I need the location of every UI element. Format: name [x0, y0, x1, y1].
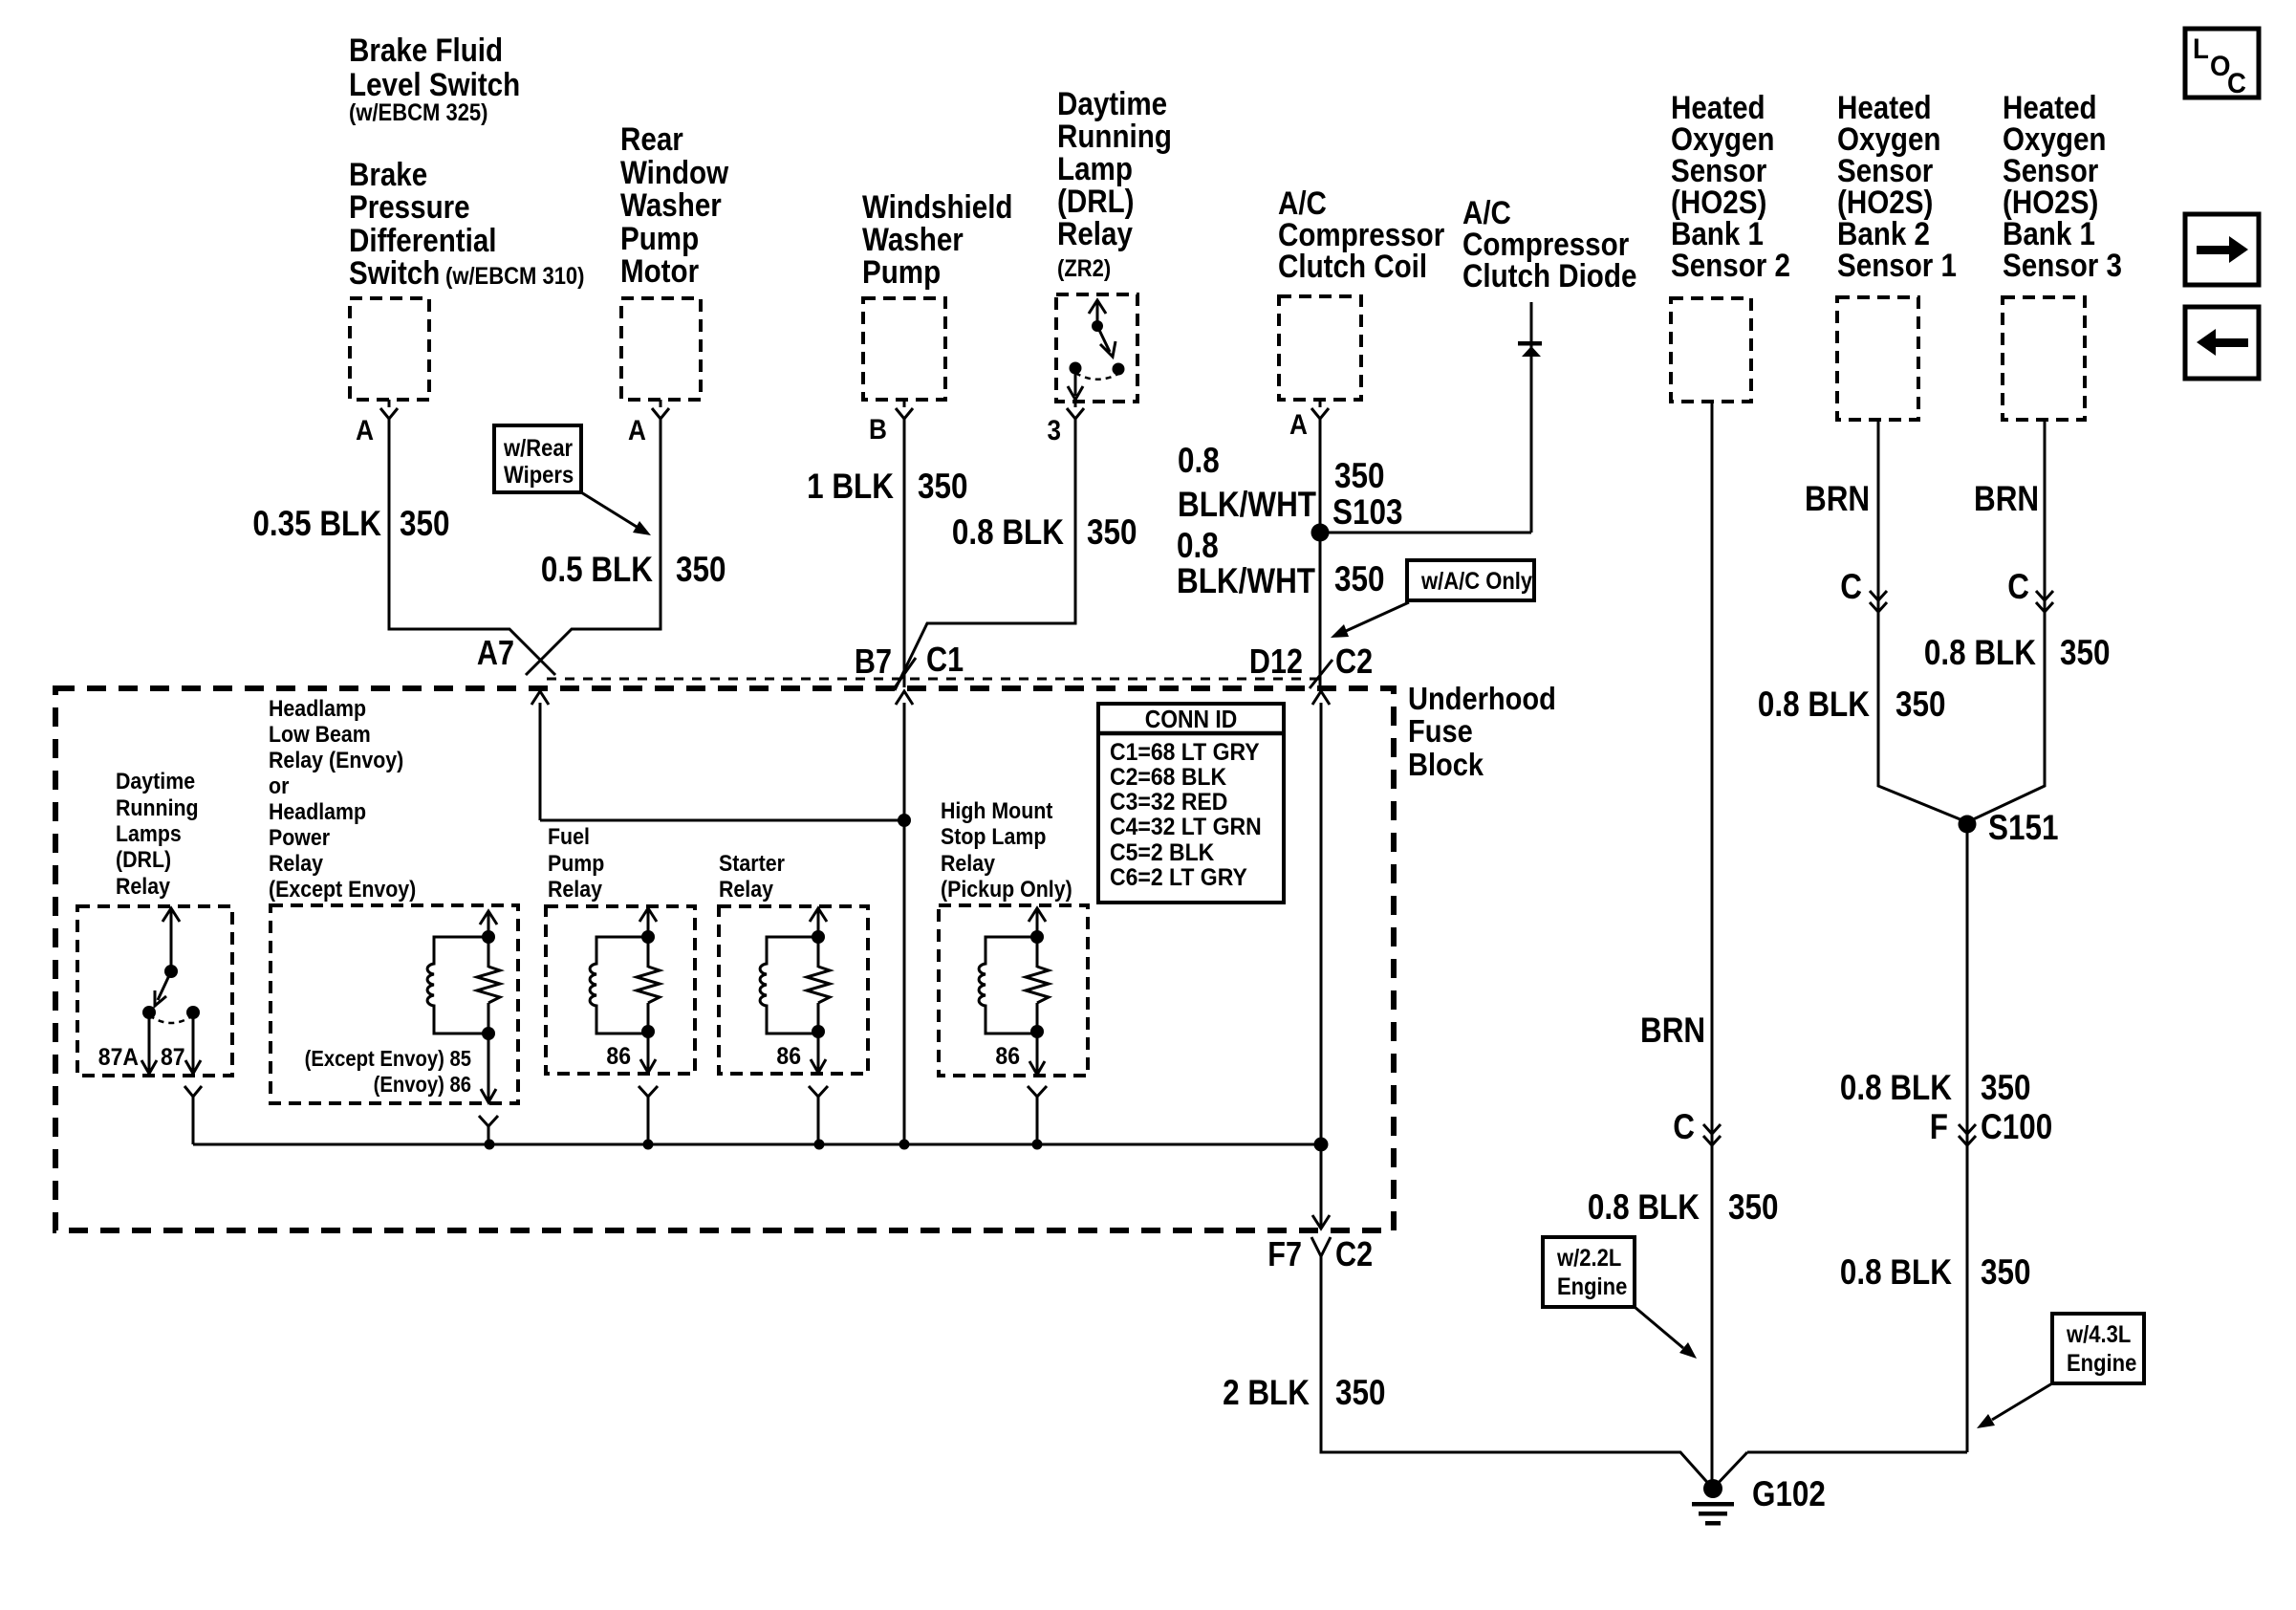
svg-text:350: 350 — [1981, 1252, 2031, 1292]
svg-text:C100: C100 — [1981, 1107, 2052, 1146]
svg-text:S103: S103 — [1332, 492, 1403, 532]
svg-text:0.8 BLK: 0.8 BLK — [1588, 1187, 1700, 1227]
svg-text:350: 350 — [2060, 633, 2111, 672]
svg-text:Pressure: Pressure — [349, 189, 470, 226]
svg-text:1 BLK: 1 BLK — [807, 467, 894, 506]
svg-text:0.35 BLK: 0.35 BLK — [252, 504, 381, 543]
svg-text:C2: C2 — [1335, 642, 1373, 681]
svg-text:Relay: Relay — [719, 877, 774, 903]
svg-text:C: C — [1840, 567, 1862, 606]
svg-text:Engine: Engine — [2067, 1350, 2136, 1377]
svg-text:Pump: Pump — [862, 254, 941, 291]
svg-text:Rear: Rear — [620, 121, 683, 158]
svg-text:Motor: Motor — [620, 253, 699, 290]
svg-text:350: 350 — [1334, 559, 1385, 598]
svg-text:0.8 BLK: 0.8 BLK — [1758, 685, 1870, 724]
svg-text:87A: 87A — [98, 1044, 139, 1071]
svg-text:Wipers: Wipers — [504, 462, 574, 489]
svg-text:Block: Block — [1408, 747, 1484, 782]
svg-text:Pump: Pump — [548, 851, 604, 877]
svg-text:0.8 BLK: 0.8 BLK — [1840, 1068, 1952, 1107]
svg-text:Lamps: Lamps — [116, 821, 182, 847]
svg-text:Windshield: Windshield — [862, 189, 1013, 226]
svg-text:Level Switch: Level Switch — [349, 67, 520, 103]
svg-text:C: C — [1673, 1107, 1695, 1146]
svg-text:BLK/WHT: BLK/WHT — [1178, 485, 1316, 524]
svg-text:Engine: Engine — [1557, 1273, 1627, 1300]
svg-text:Fuse: Fuse — [1408, 713, 1473, 749]
svg-text:(w/EBCM 325): (w/EBCM 325) — [349, 99, 488, 126]
svg-text:86: 86 — [606, 1043, 631, 1070]
svg-text:Relay: Relay — [941, 851, 996, 877]
svg-text:BRN: BRN — [1640, 1011, 1705, 1050]
svg-text:D12: D12 — [1249, 642, 1303, 681]
svg-text:350: 350 — [1895, 685, 1946, 724]
svg-text:Clutch Diode: Clutch Diode — [1462, 258, 1636, 294]
svg-text:B7: B7 — [855, 642, 892, 681]
svg-text:C1=68 LT GRY: C1=68 LT GRY — [1110, 739, 1260, 766]
svg-text:C6=2 LT GRY: C6=2 LT GRY — [1110, 864, 1247, 891]
svg-text:0.5 BLK: 0.5 BLK — [541, 550, 653, 589]
svg-text:(Except Envoy): (Except Envoy) — [269, 877, 416, 903]
svg-text:Headlamp: Headlamp — [269, 799, 366, 825]
svg-text:Brake: Brake — [349, 157, 427, 193]
svg-text:BLK/WHT: BLK/WHT — [1177, 561, 1315, 600]
svg-text:Relay (Envoy): Relay (Envoy) — [269, 748, 403, 773]
svg-text:CONN ID: CONN ID — [1145, 705, 1238, 733]
svg-text:0.8 BLK: 0.8 BLK — [1924, 633, 2036, 672]
svg-text:Relay: Relay — [116, 874, 171, 900]
svg-text:350: 350 — [400, 504, 450, 543]
svg-text:A: A — [1289, 409, 1308, 441]
svg-text:350: 350 — [1334, 456, 1385, 495]
svg-text:Relay: Relay — [548, 877, 603, 903]
svg-text:C: C — [2227, 68, 2246, 99]
svg-text:(Except Envoy) 85: (Except Envoy) 85 — [305, 1046, 472, 1071]
svg-text:Sensor 2: Sensor 2 — [1671, 248, 1790, 284]
svg-text:350: 350 — [1981, 1068, 2031, 1107]
svg-text:0.8 BLK: 0.8 BLK — [952, 512, 1064, 552]
svg-text:Window: Window — [620, 155, 729, 191]
svg-text:w/4.3L: w/4.3L — [2066, 1321, 2131, 1348]
svg-text:Daytime: Daytime — [116, 769, 195, 794]
svg-text:(ZR2): (ZR2) — [1057, 255, 1111, 282]
svg-text:C5=2 BLK: C5=2 BLK — [1110, 839, 1214, 866]
svg-text:A: A — [628, 415, 646, 446]
svg-text:Clutch Coil: Clutch Coil — [1278, 249, 1427, 285]
svg-text:C4=32 LT GRN: C4=32 LT GRN — [1110, 814, 1262, 840]
svg-text:C2=68 BLK: C2=68 BLK — [1110, 764, 1226, 791]
svg-text:Sensor 1: Sensor 1 — [1837, 248, 1957, 284]
svg-text:Relay: Relay — [1057, 216, 1133, 252]
svg-text:0.8: 0.8 — [1178, 441, 1220, 480]
svg-text:G102: G102 — [1752, 1474, 1826, 1513]
svg-text:B: B — [869, 414, 887, 446]
svg-text:Low Beam: Low Beam — [269, 722, 371, 748]
svg-text:Fuel: Fuel — [548, 824, 590, 850]
svg-text:C1: C1 — [926, 640, 964, 679]
svg-text:Washer: Washer — [620, 187, 722, 224]
svg-text:w/A/C Only: w/A/C Only — [1420, 568, 1532, 595]
svg-text:86: 86 — [776, 1043, 801, 1070]
svg-text:(w/EBCM 310): (w/EBCM 310) — [445, 263, 585, 290]
svg-text:w/Rear: w/Rear — [503, 435, 573, 462]
svg-text:S151: S151 — [1988, 808, 2059, 847]
svg-text:Underhood: Underhood — [1408, 681, 1556, 716]
svg-text:350: 350 — [1335, 1373, 1386, 1412]
svg-text:C2: C2 — [1335, 1234, 1373, 1273]
svg-text:Switch: Switch — [349, 255, 440, 292]
svg-text:Headlamp: Headlamp — [269, 696, 366, 722]
svg-text:Lamp: Lamp — [1057, 151, 1133, 187]
svg-text:F7: F7 — [1267, 1234, 1302, 1273]
svg-text:C3=32 RED: C3=32 RED — [1110, 789, 1227, 816]
svg-text:or: or — [269, 773, 289, 799]
svg-text:A7: A7 — [477, 633, 514, 672]
svg-text:2 BLK: 2 BLK — [1223, 1373, 1310, 1412]
svg-text:Daytime: Daytime — [1057, 86, 1167, 122]
svg-text:BRN: BRN — [1805, 479, 1870, 518]
svg-text:(DRL): (DRL) — [116, 847, 171, 873]
svg-text:350: 350 — [918, 467, 968, 506]
svg-text:350: 350 — [1087, 512, 1137, 552]
svg-text:A: A — [356, 415, 374, 446]
svg-text:Sensor 3: Sensor 3 — [2003, 248, 2122, 284]
svg-text:BRN: BRN — [1974, 479, 2039, 518]
svg-text:87: 87 — [161, 1044, 185, 1071]
svg-text:3: 3 — [1048, 415, 1062, 446]
svg-text:Stop Lamp: Stop Lamp — [941, 824, 1046, 850]
svg-text:C: C — [2007, 567, 2029, 606]
svg-text:F: F — [1930, 1107, 1948, 1146]
svg-text:Washer: Washer — [862, 222, 964, 258]
svg-text:0.8: 0.8 — [1177, 526, 1219, 565]
svg-text:86: 86 — [995, 1043, 1020, 1070]
svg-text:Pump: Pump — [620, 221, 699, 257]
svg-text:(DRL): (DRL) — [1057, 184, 1135, 220]
svg-text:Power: Power — [269, 825, 330, 851]
svg-text:L: L — [2193, 33, 2209, 65]
svg-text:Starter: Starter — [719, 851, 785, 877]
svg-text:Differential: Differential — [349, 223, 497, 259]
svg-text:(Envoy) 86: (Envoy) 86 — [374, 1072, 471, 1097]
svg-text:(Pickup Only): (Pickup Only) — [941, 877, 1072, 903]
svg-text:Running: Running — [116, 795, 199, 821]
svg-text:350: 350 — [1728, 1187, 1779, 1227]
svg-text:High Mount: High Mount — [941, 798, 1052, 824]
svg-text:Brake Fluid: Brake Fluid — [349, 33, 503, 69]
svg-text:w/2.2L: w/2.2L — [1556, 1245, 1621, 1272]
svg-text:Relay: Relay — [269, 851, 324, 877]
svg-text:350: 350 — [676, 550, 726, 589]
svg-text:0.8 BLK: 0.8 BLK — [1840, 1252, 1952, 1292]
svg-text:Running: Running — [1057, 119, 1172, 155]
